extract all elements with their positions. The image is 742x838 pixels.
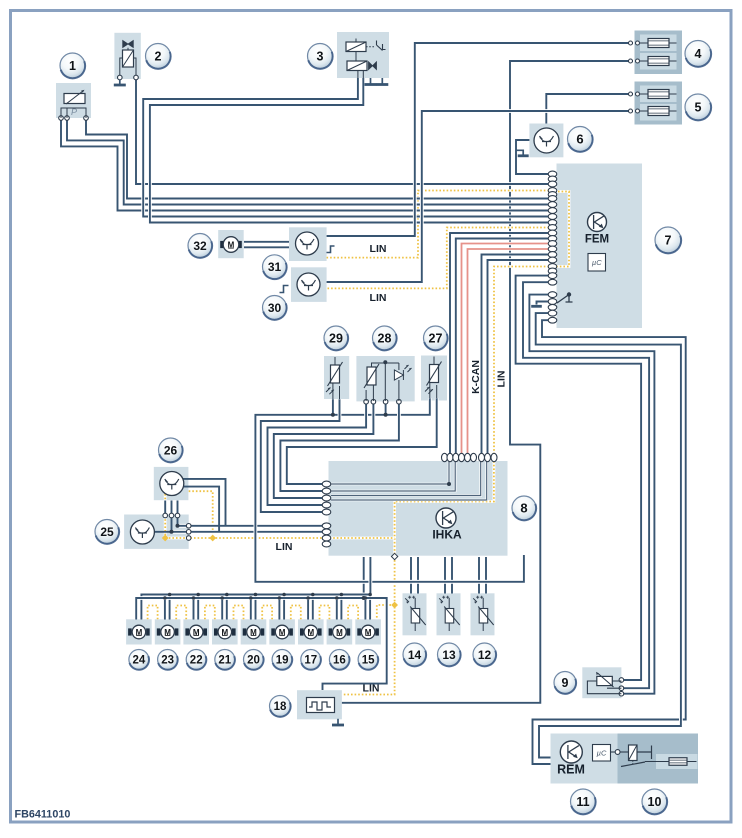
junction bus1/component29 xyxy=(331,413,335,417)
label badge 1 xyxy=(60,53,85,78)
wire component 3 pin2 to FEM xyxy=(150,78,549,223)
svg-text:5: 5 xyxy=(695,101,702,115)
svg-text:6: 6 xyxy=(576,132,583,147)
fuse 4 upper xyxy=(640,42,677,44)
ground component 6 xyxy=(516,150,523,154)
thermistor symbol component 27 xyxy=(430,365,439,383)
K-CAN wire low xyxy=(468,249,550,454)
wire bus6 component 27 to IHKA xyxy=(287,398,437,484)
component 10 box (relay/fuse in REM) xyxy=(618,734,699,784)
ground component 3 a xyxy=(370,78,372,84)
REM pin xyxy=(611,751,616,753)
LIN wire FEM to transistor 31 xyxy=(327,191,549,258)
wire fuse5-lower to transistor 30 xyxy=(327,111,633,282)
LIN drop IHKA to component 18 xyxy=(342,557,395,695)
junction IHKA/motor bus2 xyxy=(362,596,366,600)
svg-text:30: 30 xyxy=(268,301,282,315)
IHKA internal wire d xyxy=(331,461,487,500)
wire FEM to IHKA b xyxy=(456,239,549,455)
REM microcontroller symbol xyxy=(593,745,611,762)
wire FEM to component 9 t1 xyxy=(516,276,642,680)
sensor symbol 14 xyxy=(414,598,416,609)
component 9 box (potentiometer) xyxy=(582,667,621,698)
junction component 28 top xyxy=(383,360,387,364)
svg-text:10: 10 xyxy=(648,795,662,809)
label badge 15 xyxy=(358,650,378,670)
motor symbol 20 xyxy=(243,628,247,635)
transistor symbol component 30 xyxy=(297,273,320,296)
svg-text:LIN: LIN xyxy=(363,683,380,695)
label badge 23 xyxy=(158,650,178,670)
LED symbol component 28 xyxy=(394,370,403,380)
ground FEM internal xyxy=(531,305,542,308)
svg-text:17: 17 xyxy=(304,655,317,667)
svg-text:24: 24 xyxy=(133,655,146,667)
motor 24 box xyxy=(126,619,152,644)
wire FEM to component 9 t2 xyxy=(523,282,649,688)
label badge 19 xyxy=(272,650,292,670)
svg-text:FEM: FEM xyxy=(585,234,609,246)
label badge 29 xyxy=(324,326,348,350)
motor symbol 16 xyxy=(329,628,333,635)
motor 21 box xyxy=(212,619,238,644)
terminals component 28 xyxy=(364,399,369,404)
transistor symbol component 31 xyxy=(296,232,319,255)
junctions transistor 25 xyxy=(170,530,174,534)
label badge 4 xyxy=(685,41,711,67)
component 28 box (sensor+LED) xyxy=(356,356,414,401)
svg-text:21: 21 xyxy=(218,655,231,667)
label badge 13 xyxy=(438,643,461,666)
svg-text:28: 28 xyxy=(378,332,392,346)
motor 23 box xyxy=(155,619,181,644)
svg-text:µC: µC xyxy=(592,258,602,267)
REM transistor symbol xyxy=(560,741,582,763)
svg-text:LIN: LIN xyxy=(496,371,508,388)
wire FEM to component 9 t3 xyxy=(529,295,654,694)
svg-text:FB6411010: FB6411010 xyxy=(15,809,71,821)
LIN inside IHKA left xyxy=(326,537,395,540)
fuse 4 lower xyxy=(640,60,677,62)
IHKA internal wire b xyxy=(331,461,455,491)
wires motor 32 to transistor 31 xyxy=(244,242,289,248)
LIN loop inside FEM xyxy=(549,192,569,267)
svg-text:3: 3 xyxy=(317,50,324,64)
junction bus1/component28 xyxy=(384,413,388,417)
wire bus1 IHKA feed loop via components 27-29 xyxy=(255,398,524,582)
wire bus5 component 28 to IHKA xyxy=(280,402,399,491)
wire FEM to REM inner xyxy=(536,313,681,757)
wire bus4 component 28 to IHKA xyxy=(274,402,374,498)
wire FEM to REM outer xyxy=(533,320,686,764)
wires motor drops xyxy=(165,596,370,619)
svg-text:7: 7 xyxy=(665,234,672,248)
motor 16 box xyxy=(327,619,353,644)
wire component 1 pin3 to FEM xyxy=(86,118,549,199)
svg-text:2: 2 xyxy=(155,50,162,64)
svg-text:14: 14 xyxy=(408,648,422,662)
svg-text:K-CAN: K-CAN xyxy=(470,360,482,394)
svg-text:8: 8 xyxy=(520,501,527,516)
svg-text:26: 26 xyxy=(164,443,178,457)
wire bus3 component 28 to IHKA xyxy=(268,402,367,505)
label badge 8 xyxy=(512,496,536,520)
motor symbol 24 xyxy=(128,628,132,635)
wire fuse4-upper to transistor 31 xyxy=(327,43,633,236)
fuse 5 lower xyxy=(640,110,677,112)
label badge 22 xyxy=(186,650,206,670)
svg-text:9: 9 xyxy=(562,676,569,690)
svg-text:29: 29 xyxy=(329,332,343,346)
svg-text:16: 16 xyxy=(333,655,346,667)
motor 15 box xyxy=(355,619,381,644)
svg-text:LIN: LIN xyxy=(370,292,387,304)
svg-text:32: 32 xyxy=(193,239,207,253)
terminals component 2 xyxy=(118,75,123,80)
svg-text:12: 12 xyxy=(478,648,492,662)
label badge 7 xyxy=(655,227,681,253)
wires between boxes 25 and 26 xyxy=(165,501,177,516)
svg-text:REM: REM xyxy=(557,763,585,777)
fuse box 5 outer xyxy=(635,82,683,125)
svg-text:LIN: LIN xyxy=(370,243,387,255)
motor symbol 19 xyxy=(271,628,275,635)
component 6 box (transistor) xyxy=(529,124,563,158)
wire transistor 26 lower to line2 xyxy=(183,487,219,532)
LIN junction diamond motors xyxy=(391,602,398,609)
wire FEM ground pin xyxy=(537,302,550,305)
LIN inside IHKA xyxy=(395,454,494,557)
wire component 1 pin2 to FEM xyxy=(67,118,549,205)
svg-text:25: 25 xyxy=(100,525,114,539)
terminals component 9 xyxy=(619,678,624,683)
fuse 5 upper xyxy=(640,93,677,95)
label badge 27 xyxy=(424,326,448,350)
LIN wire transistors 25/26 to IHKA xyxy=(165,494,322,538)
LIN wire FEM to transistor 30 xyxy=(327,228,549,289)
wire component 29 left to bus1 xyxy=(332,399,334,415)
wire motor bus1 to IHKA xyxy=(141,557,370,620)
label badge 18 xyxy=(270,696,291,717)
wire fuse5-upper to transistor 6 xyxy=(546,94,633,124)
label badge 24 xyxy=(129,650,149,670)
fuse box 4 outer xyxy=(635,31,683,75)
IHKA internal wire c xyxy=(331,461,481,496)
terminals box 25 xyxy=(163,513,168,518)
ground component 18 xyxy=(337,719,339,724)
component 2 box (valve) xyxy=(114,33,140,79)
component 1 box (pressure sensor) xyxy=(56,83,91,118)
label badge 30 xyxy=(263,296,287,320)
label badge 11 xyxy=(571,789,596,814)
svg-text:LIN: LIN xyxy=(276,541,293,553)
thermistor symbol component 29 xyxy=(331,365,340,383)
terminals fuses xyxy=(629,41,633,45)
label badge 26 xyxy=(159,438,183,462)
component 2 valve symbol xyxy=(123,41,134,48)
sensor symbol 13 xyxy=(448,598,450,609)
motor symbol component 32 xyxy=(220,241,224,248)
potentiometer symbol component 9 xyxy=(587,681,621,694)
LIN junction diamond 26 xyxy=(209,535,216,542)
label badge 12 xyxy=(473,643,496,666)
relay symbol component 10 xyxy=(620,751,629,753)
switch symbol component 10 xyxy=(621,762,645,767)
thermistor symbol component 28 xyxy=(367,367,376,385)
svg-text:23: 23 xyxy=(161,655,174,667)
step glyph transistor 30 xyxy=(280,286,289,293)
IHKA control unit box 8 xyxy=(329,461,508,556)
wire transistor 26 upper to line1 xyxy=(183,479,226,526)
K-CAN wire high xyxy=(462,244,550,455)
clock signal symbol component 18 xyxy=(307,698,335,713)
LIN daisy chain through flap motors xyxy=(148,605,395,619)
label badge 6 xyxy=(568,127,593,152)
label badge 10 xyxy=(642,789,667,814)
svg-text:18: 18 xyxy=(274,701,287,713)
IHKA transistor symbol xyxy=(436,508,456,528)
svg-text:µC: µC xyxy=(597,748,607,757)
terminals component 1 xyxy=(59,116,64,121)
svg-text:13: 13 xyxy=(442,648,456,662)
wire component 2 to FEM xyxy=(136,79,549,184)
sensor 14 box xyxy=(403,593,427,635)
wire fuse4-lower to component 18 (long feed) xyxy=(342,61,633,703)
svg-text:11: 11 xyxy=(576,795,589,809)
label badge 20 xyxy=(244,650,264,670)
svg-text:P: P xyxy=(71,107,77,117)
wire component 28 t3 to bus1 xyxy=(385,404,387,415)
IHKA internal wire a xyxy=(331,461,449,484)
wire line2 to IHKA xyxy=(172,530,323,534)
wire bus2 component 29 to IHKA xyxy=(261,399,340,512)
component 32 box (motor) xyxy=(218,230,244,258)
transistor symbol component 26 xyxy=(160,472,184,496)
wire FEM to IHKA a xyxy=(450,233,549,454)
FEM microcontroller symbol xyxy=(588,254,606,272)
wires IHKA to sensors 12-14 xyxy=(411,557,486,594)
component 30 box (transistor) xyxy=(291,267,327,302)
motor 22 box xyxy=(183,619,209,644)
motor symbol 23 xyxy=(157,628,161,635)
label badge 21 xyxy=(215,650,235,670)
wire motor bus2 to component 18 xyxy=(136,598,387,690)
svg-text:22: 22 xyxy=(190,655,203,667)
sensor 12 box xyxy=(471,593,495,635)
motor symbol 21 xyxy=(214,628,218,635)
IHKA connector pins top xyxy=(442,453,448,461)
svg-text:31: 31 xyxy=(268,260,282,274)
wire component 1 pin1 to FEM xyxy=(61,118,549,211)
FEM connector pins xyxy=(548,171,557,177)
sensor 13 box xyxy=(437,593,461,635)
label badge 5 xyxy=(685,94,711,120)
ground component 3 b xyxy=(381,78,383,84)
component 3 relay symbols xyxy=(346,42,366,52)
component 18 box (clock signal) xyxy=(297,690,342,719)
motor 19 box xyxy=(269,619,295,644)
wire FEM to IHKA d xyxy=(488,260,550,454)
LIN bus FEM to IHKA xyxy=(494,267,549,455)
svg-text:1: 1 xyxy=(69,59,76,73)
IHKA connector pins left xyxy=(322,481,331,487)
wire transistor 25 stub xyxy=(155,531,172,533)
ground component 2 xyxy=(119,80,121,84)
IHKA internal junction xyxy=(447,482,451,486)
sensor symbol 12 xyxy=(482,598,484,609)
LIN pin IHKA bottom xyxy=(391,553,397,559)
label badge 16 xyxy=(329,650,349,670)
svg-text:27: 27 xyxy=(429,332,443,346)
fuse symbol component 10 xyxy=(669,758,687,766)
motor symbol 22 xyxy=(185,628,189,635)
label badge 32 xyxy=(188,234,212,258)
transistor symbol component 25 xyxy=(130,520,154,544)
step glyph transistor 31 xyxy=(327,246,335,253)
REM control unit box 11 xyxy=(551,734,618,784)
label badge 28 xyxy=(373,326,397,350)
wire FEM to IHKA c xyxy=(482,255,550,455)
label badge 17 xyxy=(301,650,321,670)
motor symbol 17 xyxy=(300,628,304,635)
wire line1 to IHKA xyxy=(178,524,323,528)
motor symbol 15 xyxy=(357,628,361,635)
component 27 box (sensor) xyxy=(421,356,447,401)
svg-text:IHKA: IHKA xyxy=(432,528,462,542)
wire component 3 pin1 to FEM xyxy=(143,78,549,217)
svg-text:19: 19 xyxy=(276,655,289,667)
wires transistor 25 junctions xyxy=(172,516,178,532)
label badge 25 xyxy=(95,520,119,544)
LIN branch transistor 26 xyxy=(189,491,213,538)
transistor symbol component 6 xyxy=(534,128,559,153)
motor 17 box xyxy=(298,619,324,644)
motor 20 box xyxy=(241,619,267,644)
FEM transistor symbol xyxy=(588,213,607,232)
component 25 box (transistor) xyxy=(124,515,189,549)
wire transistor 6 to FEM xyxy=(516,140,549,174)
label badge 3 xyxy=(308,44,333,69)
label badge 31 xyxy=(263,255,287,279)
component 1 pressure sensor symbol xyxy=(64,94,85,104)
svg-text:20: 20 xyxy=(247,655,260,667)
component 3 box (relay unit) xyxy=(337,32,389,78)
component 29 box (sensor) xyxy=(324,356,349,399)
svg-text:4: 4 xyxy=(695,47,702,61)
component 26 box (transistor) xyxy=(154,467,189,500)
component 31 box (transistor) xyxy=(289,227,327,261)
FEM control unit box 7 xyxy=(557,164,643,329)
label badge 14 xyxy=(403,643,426,666)
switch glyph FEM internal xyxy=(557,295,569,304)
LIN junction diamond 25 xyxy=(162,535,169,542)
label badge 9 xyxy=(554,672,576,694)
wire IHKA to motor bus2 xyxy=(362,557,366,600)
label badge 2 xyxy=(146,44,171,69)
svg-text:15: 15 xyxy=(362,655,375,667)
